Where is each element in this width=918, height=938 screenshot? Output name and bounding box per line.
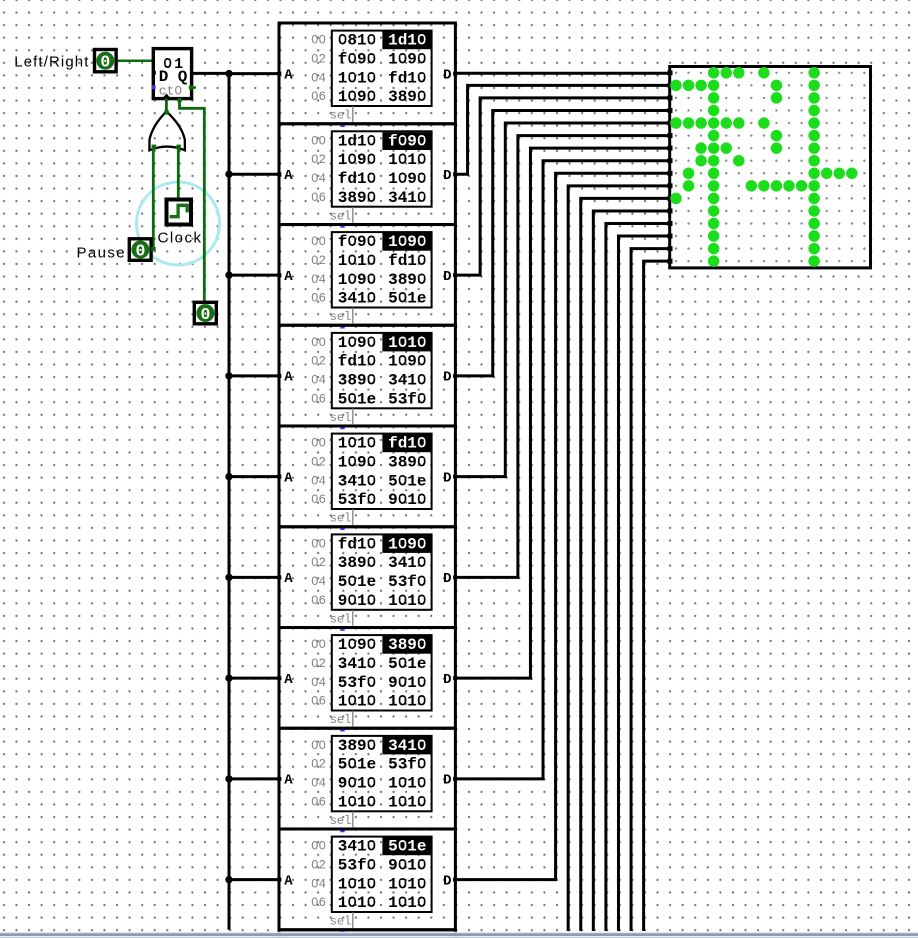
ROM7 sel pin (floating) — [340, 727, 344, 731]
wire ROM5 D to matrix row 4 — [454, 123, 670, 477]
svg-text:501e: 501e — [388, 838, 426, 856]
ROM1 sel pin (floating) — [340, 123, 344, 127]
wire ROM6 D to matrix row 5 — [454, 136, 670, 578]
input pin Left/Right (value 0) — [95, 50, 117, 72]
input pin bottom (value 0) — [194, 302, 216, 324]
ROM1 highlighted cell (current address 01) — [382, 31, 431, 49]
ROM7 data box — [332, 635, 432, 710]
svg-text:A: A — [284, 773, 293, 789]
ROM4 sel pin (floating) — [340, 425, 344, 429]
wire bus to ROM1 A input — [229, 72, 280, 75]
address bus vertical — [228, 73, 231, 929]
wire bus to ROM8 A input — [229, 777, 280, 780]
ROM3 sel pin (floating) — [340, 324, 344, 328]
svg-text:Left/Right: Left/Right — [14, 54, 89, 71]
wire ROM12 D (offscreen) to matrix row 11 — [593, 211, 670, 931]
ROM10 — [279, 930, 455, 938]
svg-text:D: D — [443, 571, 451, 587]
junction node at bus/ROM6 — [225, 574, 232, 581]
svg-text:0: 0 — [100, 53, 110, 72]
ROM2 highlighted cell (current address 01) — [382, 132, 431, 150]
svg-text:A: A — [284, 168, 293, 184]
svg-text:sel: sel — [330, 915, 352, 929]
wire ROM16 D (offscreen) to matrix row 15 — [644, 261, 671, 931]
ROM9 data box — [332, 837, 432, 912]
svg-text:501e: 501e — [338, 390, 376, 408]
svg-text:501e: 501e — [388, 655, 426, 673]
ROM6 — [277, 527, 457, 631]
junction node at bus/ROM5 — [225, 473, 232, 480]
wire Left/Right pin to counter D input — [118, 59, 153, 62]
wire bus to ROM6 A input — [229, 576, 280, 579]
wire ROM4 D to matrix row 3 — [454, 110, 670, 375]
ROM9 — [277, 829, 457, 933]
wire ROM3 D to matrix row 2 — [454, 98, 670, 275]
ROM9 highlighted cell (current address 01) — [382, 837, 431, 855]
wire bus to ROM7 A input — [229, 677, 280, 680]
ROM9 sel pin (floating) — [340, 929, 344, 933]
junction node at bus/ROM8 — [225, 775, 232, 782]
ROM8 highlighted cell (current address 01) — [382, 737, 431, 755]
svg-text:A: A — [284, 269, 293, 285]
junction node at bus/ROM4 — [225, 372, 232, 379]
ROM2 sel pin (floating) — [340, 223, 344, 227]
wire bus to ROM2 A input — [229, 173, 280, 176]
svg-text:A: A — [284, 470, 293, 486]
selection halo around clock — [137, 182, 220, 265]
wire ROM13 D (offscreen) to matrix row 12 — [606, 224, 671, 932]
svg-text:sel: sel — [330, 612, 352, 626]
svg-text:sel: sel — [330, 512, 352, 526]
clock component CLK — [167, 200, 192, 225]
svg-text:Clock: Clock — [157, 230, 202, 247]
ROM3 data box — [332, 232, 432, 307]
wire ROM2 D to matrix row 1 — [454, 85, 670, 174]
wire bus to ROM3 A input — [229, 274, 280, 277]
wire ROM10 D (offscreen) to matrix row 9 — [568, 186, 671, 931]
ROM5 — [277, 426, 457, 530]
ROM7 — [277, 628, 457, 732]
svg-text:D: D — [443, 67, 451, 83]
wire ROM14 D (offscreen) to matrix row 13 — [618, 236, 670, 931]
junction node at bus/ROM2 — [225, 171, 232, 178]
wire ROM7 D to matrix row 6 — [454, 148, 670, 678]
ROM1 — [277, 23, 457, 127]
wire counter Q output — [192, 72, 231, 75]
ROM4 highlighted cell (current address 01) — [382, 334, 431, 352]
wire ROM8 D to matrix row 7 — [454, 161, 670, 779]
junction node at bus/ROM3 — [225, 271, 232, 278]
svg-text:sel: sel — [330, 209, 352, 223]
LED on dots — [670, 67, 857, 267]
wire OR gate output to counter clock — [165, 99, 168, 113]
LED matrix display — [668, 67, 871, 268]
junction node at bus/ROM9 — [225, 876, 232, 883]
wire counter enable to pin below (steps right) — [180, 100, 205, 301]
ROM6 data box — [332, 534, 432, 609]
ROM8 sel pin (floating) — [340, 828, 344, 832]
svg-text:D: D — [443, 168, 451, 184]
svg-text:A: A — [284, 370, 293, 386]
input pin Pause (value 0) — [129, 239, 151, 261]
wire bus to ROM9 A input — [229, 878, 280, 881]
ROM2 — [277, 124, 457, 228]
ROM3 — [277, 225, 457, 329]
OR gate G1 — [149, 110, 185, 150]
wire gate input to Pause pin — [152, 147, 155, 250]
ROM5 sel pin (floating) — [340, 526, 344, 530]
svg-text:D: D — [443, 672, 451, 688]
svg-text:D: D — [443, 370, 451, 386]
svg-text:D: D — [443, 470, 451, 486]
svg-text:Pause: Pause — [76, 245, 126, 262]
svg-text:501e: 501e — [388, 472, 426, 490]
ROM2 data box — [332, 131, 432, 206]
svg-text:sel: sel — [330, 109, 352, 123]
svg-text:501e: 501e — [338, 573, 376, 591]
svg-text:501e: 501e — [338, 756, 376, 774]
wire ROM9 D to matrix row 8 — [454, 173, 670, 879]
svg-text:D: D — [443, 873, 451, 889]
ROM8 data box — [332, 736, 432, 811]
svg-text:0: 0 — [135, 242, 145, 261]
svg-text:0: 0 — [200, 305, 210, 324]
counter U1 (D flip-flop style register, value 01) — [152, 49, 196, 100]
svg-text:sel: sel — [330, 411, 352, 425]
svg-text:sel: sel — [330, 814, 352, 828]
wire ROM15 D (offscreen) to matrix row 14 — [631, 249, 671, 931]
junction node at bus/ROM7 — [225, 674, 232, 681]
ROM1 data box — [332, 31, 432, 106]
ROM5 highlighted cell (current address 01) — [382, 434, 431, 452]
ROM4 — [277, 325, 457, 429]
svg-text:D: D — [443, 773, 451, 789]
ROM6 sel pin (floating) — [340, 626, 344, 630]
wire gate input to clock — [177, 147, 180, 201]
svg-text:A: A — [284, 67, 293, 83]
wire bus to ROM4 A input — [229, 374, 280, 377]
junction node at bus/ROM1 — [225, 70, 232, 77]
svg-text:A: A — [284, 571, 293, 587]
svg-text:sel: sel — [330, 713, 352, 727]
ROM8 — [277, 728, 457, 832]
wire ROM1 D to matrix row 0 — [454, 72, 670, 75]
ROM7 highlighted cell (current address 01) — [382, 636, 431, 654]
ROM4 data box — [332, 333, 432, 408]
ROM5 data box — [332, 434, 432, 509]
svg-text:A: A — [284, 672, 293, 688]
svg-text:A: A — [284, 873, 293, 889]
wire bus to ROM5 A input — [229, 475, 280, 478]
ROM6 highlighted cell (current address 01) — [382, 535, 431, 553]
window scrollbar strip — [0, 932, 918, 938]
svg-text:501e: 501e — [388, 290, 426, 308]
wire ROM11 D (offscreen) to matrix row 10 — [581, 198, 671, 931]
ROM3 highlighted cell (current address 01) — [382, 233, 431, 251]
svg-text:D: D — [443, 269, 451, 285]
svg-text:sel: sel — [330, 310, 352, 324]
